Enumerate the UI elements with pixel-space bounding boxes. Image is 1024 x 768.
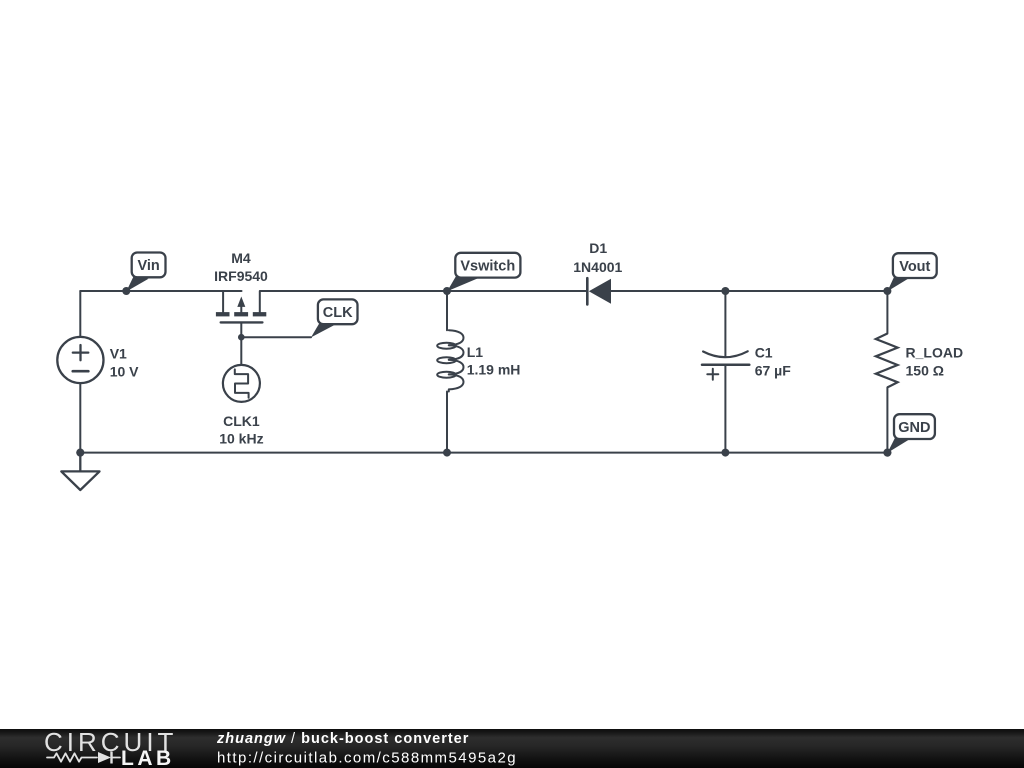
svg-text:1.19 mH: 1.19 mH	[467, 362, 521, 378]
wire V1 top lead	[79, 291, 81, 337]
svg-text:CLK1: CLK1	[223, 413, 260, 429]
svg-text:10 V: 10 V	[110, 363, 139, 379]
label CLK1 value	[219, 413, 263, 447]
svg-text:GND: GND	[898, 420, 930, 436]
svg-text:C1: C1	[755, 344, 773, 360]
wire C1 top lead	[724, 291, 726, 357]
svg-text:1N4001: 1N4001	[573, 259, 622, 275]
wire V1 bottom lead	[79, 383, 81, 452]
junction node Vin	[122, 287, 130, 295]
label L1 value	[467, 344, 521, 378]
flag Vout	[887, 253, 936, 291]
flag Vin	[126, 253, 165, 292]
junction node Vout	[883, 287, 891, 295]
M4 body arrow	[240, 303, 242, 314]
svg-text:10 kHz: 10 kHz	[219, 431, 263, 447]
wire top rail diode to Vout	[610, 290, 888, 292]
ground	[61, 453, 99, 490]
inductor L1	[437, 330, 463, 391]
svg-text:L1: L1	[467, 344, 484, 360]
resistor R_LOAD	[876, 334, 898, 388]
svg-text:D1: D1	[589, 240, 607, 256]
CircuitLab logo schematic squiggle	[47, 752, 120, 764]
label M4	[214, 250, 268, 284]
svg-text:Vout: Vout	[899, 259, 930, 275]
capacitor C1	[702, 351, 749, 380]
wire top rail M4 to diode	[260, 291, 586, 312]
junction node Vswitch	[443, 287, 451, 295]
M4 gate lead	[240, 324, 242, 338]
svg-text:150 Ω: 150 Ω	[906, 362, 944, 378]
svg-text:IRF9540: IRF9540	[214, 268, 268, 284]
M4 channel bars	[216, 312, 230, 316]
svg-text:V1: V1	[110, 345, 127, 361]
label C1 value	[755, 344, 792, 378]
junction node C1 top	[721, 287, 729, 295]
wire bottom rail	[80, 452, 887, 454]
junction node C1 bottom	[721, 449, 729, 457]
M4 gate plate	[221, 321, 263, 323]
wire top rail left (Vin to M4)	[80, 290, 241, 292]
wire L1 top lead	[446, 291, 448, 330]
svg-text:R_LOAD: R_LOAD	[906, 344, 964, 360]
flag CLK	[311, 299, 358, 337]
wire R_LOAD top lead	[886, 291, 888, 334]
clock source CLK1	[223, 365, 260, 402]
wire gate to CLK1	[240, 337, 242, 365]
svg-text:http://circuitlab.com/c588mm54: http://circuitlab.com/c588mm5495a2g	[217, 750, 517, 767]
label D1 value	[573, 240, 622, 275]
svg-text:67 µF: 67 µF	[755, 362, 792, 378]
footer bar	[0, 729, 1024, 768]
junction node GND	[883, 449, 891, 457]
wire gate to CLK flag	[241, 336, 311, 338]
svg-text:LAB: LAB	[121, 747, 175, 768]
svg-text:zhuangw / buck-boost converter: zhuangw / buck-boost converter	[216, 731, 469, 747]
voltage source V1	[57, 337, 103, 383]
wire R_LOAD bottom lead	[886, 387, 888, 452]
junction node gate	[238, 334, 245, 341]
svg-text:CLK: CLK	[323, 305, 353, 321]
diode D1	[587, 278, 611, 304]
svg-text:Vswitch: Vswitch	[460, 258, 515, 274]
transistor M4 PMOS	[216, 291, 266, 337]
M4 source stub	[222, 291, 224, 312]
flag Vswitch	[447, 253, 520, 291]
wire C1 bottom lead	[724, 365, 726, 453]
label V1 value	[110, 345, 139, 379]
svg-text:Vin: Vin	[137, 258, 159, 274]
junction node V1 ground	[76, 449, 84, 457]
wire L1 bottom lead	[446, 392, 448, 453]
junction node L1 bottom	[443, 449, 451, 457]
label R_LOAD value	[906, 344, 964, 378]
svg-text:M4: M4	[231, 250, 251, 266]
flag GND	[887, 414, 935, 453]
